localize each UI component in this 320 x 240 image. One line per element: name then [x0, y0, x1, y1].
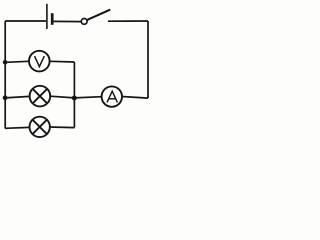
lamp L2 circle	[30, 117, 50, 137]
wire: lamp L1 to junction	[50, 96, 74, 98]
ammeter A1 circle	[102, 86, 122, 106]
wire: lamp L2 to inner right vertical	[50, 126, 75, 129]
wire top-left: corner to battery	[5, 20, 46, 22]
wire: voltmeter to inner right vertical	[50, 60, 75, 63]
lamp L2 cross stroke 2	[33, 120, 47, 134]
lamp L2 cross stroke 1	[33, 120, 47, 134]
switch S1 lever (open)	[87, 10, 110, 20]
voltmeter V1 label V	[35, 56, 45, 67]
lamp L1 cross stroke 1	[33, 89, 48, 104]
node: junction on left wire at lamp L1 branch	[3, 95, 8, 100]
voltmeter V1 circle	[29, 51, 50, 72]
wire: left wire to voltmeter	[5, 61, 29, 62]
switch S1 pivot contact	[81, 19, 87, 25]
wire: switch fixed contact to top-right corner	[108, 20, 148, 22]
lamp L1 circle	[30, 86, 51, 107]
wire: junction to ammeter	[74, 97, 101, 98]
wire right side: down to ammeter row	[147, 21, 149, 98]
wire: ammeter to right wire	[122, 97, 148, 99]
wire: battery to switch	[54, 20, 82, 22]
wire left side: top corner down to bottom corner	[4, 21, 6, 129]
ammeter A1 label A	[107, 91, 117, 102]
lamp L1 cross stroke 2	[33, 89, 48, 104]
wire inner right vertical: voltmeter branch down to bottom lamp branch	[73, 62, 75, 128]
battery B1 long plate (+)	[46, 4, 48, 29]
node: junction of lamp branches with ammeter wire	[72, 96, 77, 101]
node: junction on left wire at voltmeter branch	[3, 60, 8, 65]
wire: bottom left corner to lamp L2	[5, 126, 30, 129]
wire: left wire to lamp L1	[5, 96, 30, 98]
battery B1 short plate (-)	[51, 13, 54, 25]
